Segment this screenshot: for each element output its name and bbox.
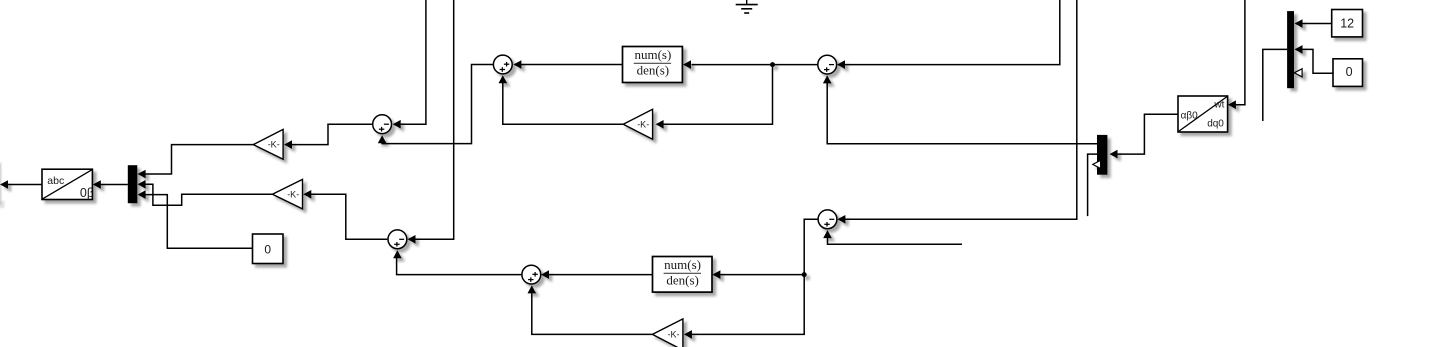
svg-text:abc: abc: [47, 175, 64, 187]
svg-text:αβ0: αβ0: [1181, 111, 1199, 122]
svg-text:den(s): den(s): [666, 272, 699, 287]
svg-text:0β: 0β: [80, 186, 94, 200]
svg-text:-K-: -K-: [287, 189, 299, 199]
svg-text:12: 12: [1340, 17, 1354, 31]
svg-text:-K-: -K-: [637, 119, 649, 129]
svg-text:-K-: -K-: [668, 330, 680, 340]
svg-text:0: 0: [1346, 65, 1353, 79]
svg-text:num(s): num(s): [634, 47, 671, 62]
svg-text:0: 0: [264, 242, 271, 256]
svg-text:dq0: dq0: [1207, 118, 1224, 129]
svg-text:num(s): num(s): [664, 257, 701, 272]
svg-text:den(s): den(s): [637, 63, 670, 78]
svg-text:-K-: -K-: [268, 140, 280, 150]
svg-text:wt: wt: [1213, 100, 1224, 111]
